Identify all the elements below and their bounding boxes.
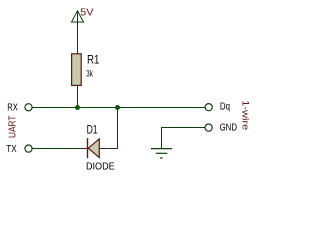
wire diode to branch: [106, 148, 118, 150]
svg-text:Dq: Dq: [220, 101, 230, 113]
svg-text:UART: UART: [7, 116, 18, 139]
svg-text:RX: RX: [7, 103, 18, 114]
resistor R1 pin 1: [77, 47, 79, 54]
power symbol +5V: [72, 11, 84, 22]
diode D1 body: [88, 139, 99, 158]
wire diode branch vertical: [117, 108, 119, 149]
diode D1 cathode bar: [87, 138, 89, 158]
svg-text:DIODE: DIODE: [86, 162, 115, 173]
diode D1 anode pin: [99, 148, 106, 150]
terminal GND: [205, 124, 212, 131]
svg-text:D1: D1: [87, 123, 98, 137]
svg-text:3k: 3k: [86, 68, 93, 78]
ground bar 1: [151, 148, 172, 150]
resistor R1 body: [72, 54, 82, 86]
terminal RX: [25, 104, 32, 111]
svg-text:5V: 5V: [80, 8, 94, 19]
wire 5V to resistor: [77, 22, 79, 47]
terminal TX: [25, 145, 32, 152]
svg-text:GND: GND: [220, 123, 237, 134]
diode D1 cathode pin: [78, 148, 88, 150]
svg-text:TX: TX: [6, 144, 17, 155]
wire GND terminal to ground: [162, 128, 205, 149]
ground bar 3: [160, 157, 163, 159]
resistor R1 pin 2: [77, 85, 79, 93]
junction node at diode branch: [115, 105, 120, 110]
svg-text:1-wire: 1-wire: [241, 100, 251, 130]
wire TX to diode: [33, 148, 79, 150]
wire RX line: [33, 107, 205, 109]
ground bar 2: [156, 152, 168, 154]
terminal Dq: [205, 104, 212, 111]
junction node at resistor: [75, 105, 80, 110]
wire resistor to RX node: [77, 93, 79, 108]
svg-text:R1: R1: [87, 53, 100, 67]
